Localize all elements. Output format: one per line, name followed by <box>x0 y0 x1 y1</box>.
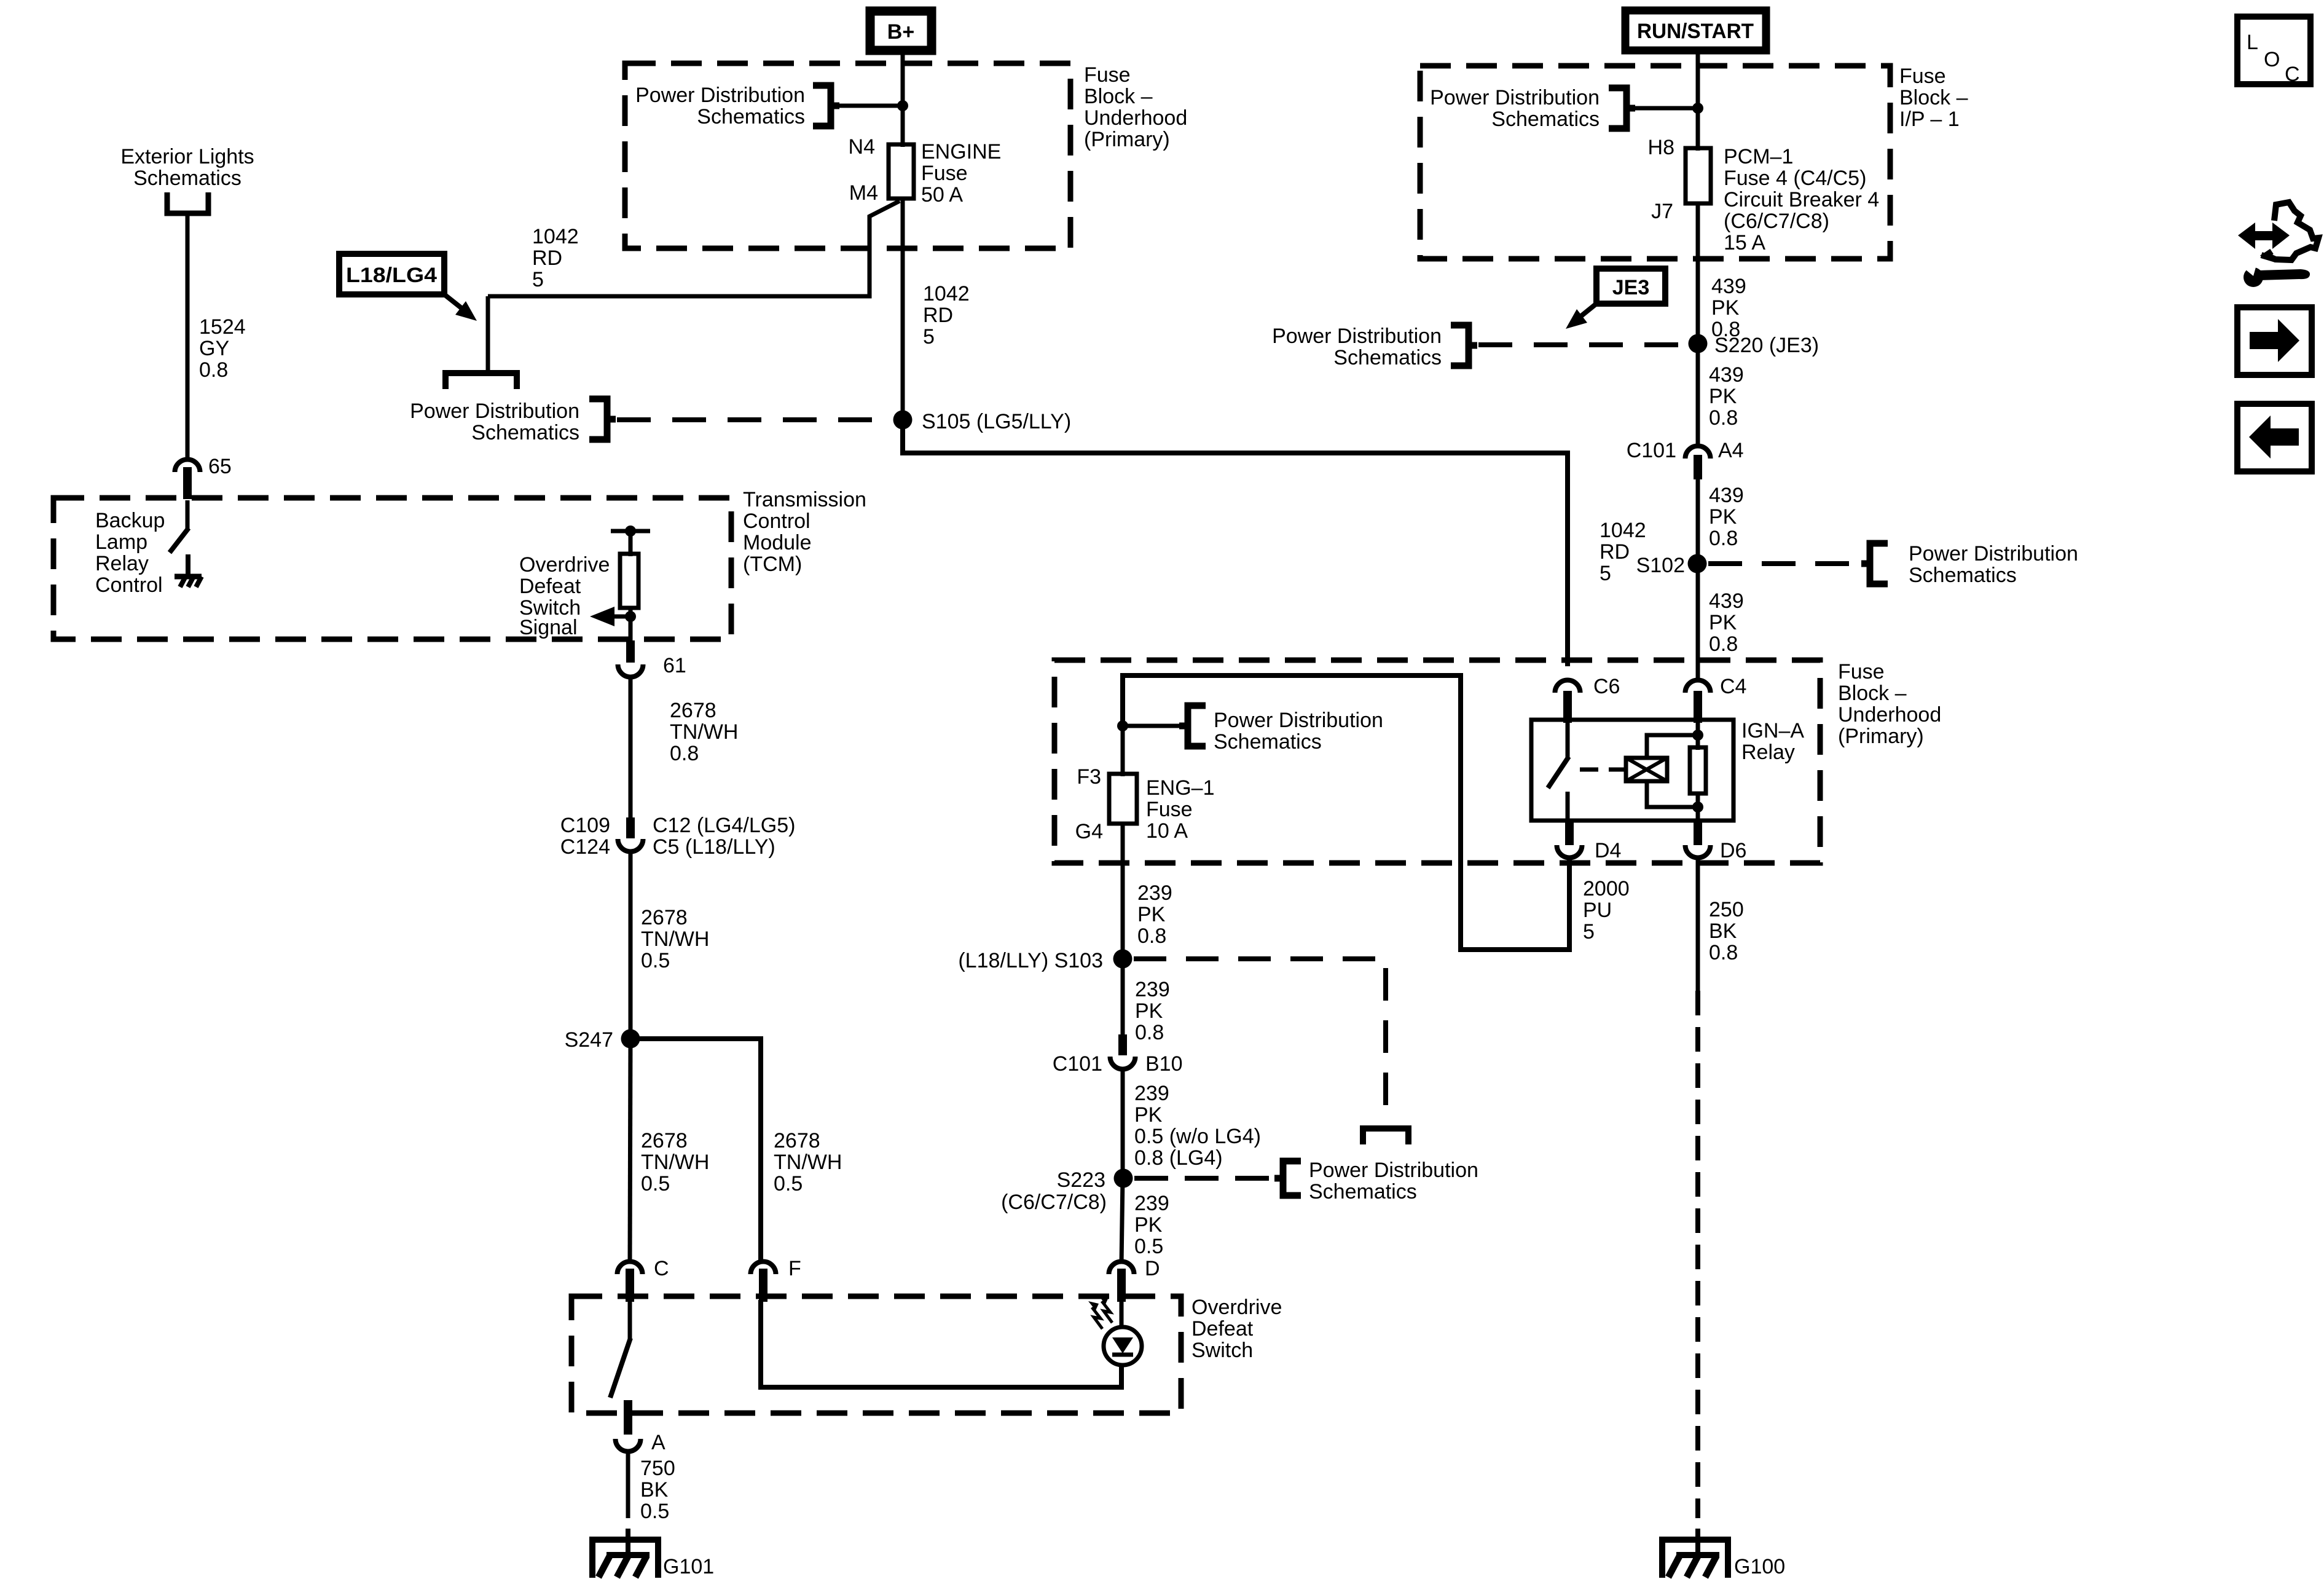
svg-text:Backup: Backup <box>95 509 165 532</box>
connector C101 B10 cup <box>1110 1057 1136 1069</box>
TCM label Transmission Control Module (TCM) <box>743 488 866 576</box>
relay coil (box with X) <box>1626 758 1667 781</box>
svg-text:C12 (LG4/LG5): C12 (LG4/LG5) <box>653 814 795 837</box>
wire S220 to C101 A4 <box>1696 344 1700 446</box>
svg-text:15 A: 15 A <box>1724 231 1765 254</box>
splice S102 <box>1688 554 1707 573</box>
label Power Distribution Schematics (JE3/S220) <box>1272 325 1442 369</box>
wire D leg into LED <box>1120 1300 1124 1329</box>
svg-text:(Primary): (Primary) <box>1838 725 1924 748</box>
svg-text:S102: S102 <box>1636 554 1685 577</box>
wire junction to bracket (I/P) <box>1632 106 1698 111</box>
svg-text:5: 5 <box>923 325 935 348</box>
terminal C connector dome <box>618 1262 643 1302</box>
pin label C12 (LG4/LG5) C5 (L18/LLY) <box>653 814 795 859</box>
svg-text:S105 (LG5/LLY): S105 (LG5/LLY) <box>922 410 1071 433</box>
svg-text:1042: 1042 <box>1600 519 1646 542</box>
svg-text:D: D <box>1145 1257 1160 1280</box>
fuse ENGINE 50 A <box>889 144 914 199</box>
legend forward arrow box <box>2237 307 2312 375</box>
svg-text:C6: C6 <box>1593 675 1620 698</box>
terminal 61 connector cup <box>618 664 643 677</box>
svg-text:C101: C101 <box>1627 439 1676 462</box>
wire S102 to C4 <box>1696 564 1700 680</box>
svg-text:A: A <box>651 1431 665 1454</box>
svg-text:TN/WH: TN/WH <box>641 1151 709 1174</box>
svg-text:Underhood: Underhood <box>1084 106 1187 130</box>
svg-text:Block –: Block – <box>1838 682 1907 705</box>
svg-text:PK: PK <box>1134 1103 1163 1127</box>
ground G100 stub <box>1695 1529 1700 1555</box>
junction dot in fuse block top <box>897 100 908 111</box>
svg-text:PU: PU <box>1583 899 1612 922</box>
svg-text:RD: RD <box>532 246 562 270</box>
svg-text:2000: 2000 <box>1583 877 1630 900</box>
svg-text:0.5: 0.5 <box>641 1172 670 1195</box>
Fuse Block Underhood (Primary) dashed box (middle) <box>1054 660 1820 863</box>
svg-text:C109: C109 <box>560 814 610 837</box>
svg-text:0.8: 0.8 <box>1709 941 1738 964</box>
wire D6 down (250 BK solid part) <box>1696 860 1700 991</box>
wire label 439 PK 0.8 (above A4) <box>1709 363 1744 430</box>
svg-text:Fuse: Fuse <box>1899 65 1946 88</box>
svg-text:0.8: 0.8 <box>1709 406 1738 430</box>
wire label 239 PK 0.8 (below G4) <box>1137 881 1172 948</box>
connector C109/C124 cup <box>618 839 643 852</box>
switch lower contact stub <box>626 1401 631 1420</box>
ground symbol G100 <box>1662 1540 1728 1578</box>
svg-text:B+: B+ <box>887 20 914 44</box>
svg-text:50 A: 50 A <box>921 183 963 207</box>
wire label 239 PK 0.5 (w/o LG4) 0.8 (LG4) <box>1134 1082 1261 1170</box>
label Fuse Block Underhood (Primary) middle <box>1838 660 1941 748</box>
wire F leg inside switch box <box>761 1300 1121 1387</box>
terminal C4 connector dome <box>1686 680 1711 723</box>
svg-text:C: C <box>654 1257 669 1280</box>
label Backup Lamp Relay Control <box>95 509 165 597</box>
svg-text:TN/WH: TN/WH <box>670 720 738 744</box>
wire resistor to junction <box>629 608 633 640</box>
TCM dashed box (contains Backup Lamp Relay Control and Overdrive Defeat Switch Signal) <box>53 498 731 639</box>
wire junction to fuse F3 <box>1121 726 1125 776</box>
svg-text:S247: S247 <box>565 1028 613 1052</box>
svg-text:D6: D6 <box>1720 839 1746 862</box>
svg-text:439: 439 <box>1709 589 1744 613</box>
svg-text:G101: G101 <box>663 1555 714 1578</box>
label Power Distribution Schematics (below L18/LG4 bracket) <box>410 400 579 444</box>
label Power Distribution Schematics (S102) <box>1909 542 2078 587</box>
relay junction dot upper <box>1692 730 1703 741</box>
wire 750 BK 0.5 <box>626 1452 630 1518</box>
Overdrive Defeat Switch dashed box <box>571 1296 1181 1413</box>
terminal D connector dome <box>1109 1262 1134 1302</box>
terminal 65 connector dome <box>175 460 200 500</box>
legend back arrow box <box>2237 404 2312 471</box>
svg-text:Switch: Switch <box>1191 1339 1253 1362</box>
svg-text:0.5: 0.5 <box>641 949 670 972</box>
svg-text:1042: 1042 <box>923 282 970 305</box>
hotlink icon (vehicle outline with double arrow and wrench) <box>2238 202 2318 287</box>
wire label 750 BK 0.5 <box>640 1457 675 1523</box>
relay label IGN-A Relay <box>1741 719 1804 764</box>
wire label 2678 TN/WH 0.5 (left) <box>641 1129 709 1195</box>
svg-text:Schematics: Schematics <box>697 105 805 128</box>
svg-text:5: 5 <box>1583 920 1595 943</box>
wire ENG-1 feed loop from D4 <box>1123 675 1569 950</box>
svg-text:A4: A4 <box>1718 439 1744 462</box>
dashed reference wire to S220 <box>1478 342 1689 347</box>
svg-text:Relay: Relay <box>1741 741 1795 764</box>
overdrive defeat switch blade <box>610 1338 630 1398</box>
svg-text:0.8: 0.8 <box>1135 1021 1164 1044</box>
splice S103 <box>1113 950 1133 969</box>
svg-text:Schematics: Schematics <box>1333 346 1442 369</box>
wire label 2678 TN/WH 0.5 (upper) <box>641 906 709 972</box>
svg-text:0.8: 0.8 <box>1137 924 1166 948</box>
svg-text:C124: C124 <box>560 835 610 859</box>
svg-text:H8: H8 <box>1648 136 1674 159</box>
wire S105 to relay C6 <box>903 420 1568 666</box>
wire corner down to off-page bracket <box>486 296 490 371</box>
svg-text:5: 5 <box>1600 562 1611 585</box>
power symbol B+ <box>870 11 932 50</box>
svg-text:PK: PK <box>1137 903 1166 926</box>
svg-text:C: C <box>2285 63 2300 86</box>
wire 1524 GY from Exterior Lights to terminal 65 <box>186 213 190 459</box>
svg-text:RD: RD <box>923 304 953 327</box>
wire label 439 PK 0.8 (above C4) <box>1709 589 1744 656</box>
svg-text:Circuit Breaker 4: Circuit Breaker 4 <box>1724 188 1879 211</box>
svg-text:Fuse: Fuse <box>1838 660 1885 683</box>
ground symbol G101 <box>592 1540 658 1578</box>
svg-text:439: 439 <box>1709 363 1744 387</box>
svg-text:Block –: Block – <box>1899 86 1968 109</box>
LOC legend box <box>2237 17 2310 86</box>
wire from top bar to resistor <box>629 531 633 556</box>
dashed reference wire from S102 <box>1708 561 1868 566</box>
wire junction to bracket (ENG-1) <box>1123 724 1184 728</box>
fuse label ENG-1 Fuse 10 A <box>1146 776 1215 843</box>
svg-text:750: 750 <box>640 1457 675 1480</box>
svg-text:Control: Control <box>95 573 163 597</box>
svg-text:O: O <box>2264 48 2280 71</box>
svg-text:439: 439 <box>1711 275 1746 298</box>
dashed reference wire to S105 <box>617 417 891 422</box>
dashed wire down to G100 <box>1695 991 1700 1518</box>
svg-text:Power Distribution: Power Distribution <box>1909 542 2078 565</box>
connector label C109 C124 <box>560 814 610 859</box>
svg-text:Module: Module <box>743 531 812 554</box>
bracket for Power Distribution Schematics (S220) <box>1451 325 1477 366</box>
svg-text:PK: PK <box>1135 999 1163 1023</box>
svg-text:B10: B10 <box>1145 1052 1183 1076</box>
resistor (overdrive defeat switch signal pull-up) <box>620 554 638 608</box>
svg-text:2678: 2678 <box>670 699 716 722</box>
label Power Distribution Schematics (ENG-1) <box>1214 709 1383 754</box>
fuse ENG-1 10 A <box>1109 774 1137 824</box>
fuse PCM-1 <box>1686 148 1711 203</box>
backup lamp relay switch blade <box>170 528 189 553</box>
svg-text:0.8: 0.8 <box>1709 632 1738 656</box>
relay switch wire from C6 <box>1566 723 1570 758</box>
svg-text:RUN/START: RUN/START <box>1637 20 1754 43</box>
svg-text:Schematics: Schematics <box>1214 730 1322 754</box>
svg-text:2678: 2678 <box>641 906 688 929</box>
svg-text:Schematics: Schematics <box>1309 1180 1417 1203</box>
svg-text:Overdrive: Overdrive <box>1191 1296 1282 1319</box>
svg-text:2678: 2678 <box>774 1129 820 1152</box>
svg-text:(C6/C7/C8): (C6/C7/C8) <box>1724 210 1829 233</box>
wire S103 to B10 <box>1121 959 1125 1037</box>
svg-text:10 A: 10 A <box>1146 819 1188 843</box>
junction dot and left arrow (overdrive defeat switch signal) <box>590 607 636 626</box>
relay coil lower lead <box>1647 781 1698 807</box>
svg-text:Fuse 4 (C4/C5): Fuse 4 (C4/C5) <box>1724 167 1866 190</box>
svg-text:Power Distribution: Power Distribution <box>1309 1159 1478 1182</box>
wire G4 to S103 <box>1121 824 1125 959</box>
svg-text:Power Distribution: Power Distribution <box>1430 86 1600 109</box>
svg-text:D4: D4 <box>1595 839 1621 862</box>
wire label 1042 RD 5 (main rail) <box>923 282 970 348</box>
bracket for Power Distribution Schematics (top fuse block) <box>813 85 839 126</box>
svg-text:Schematics: Schematics <box>1491 108 1600 131</box>
splice S223 <box>1114 1169 1133 1188</box>
label Overdrive Defeat Switch <box>1191 1296 1282 1362</box>
splice S220 <box>1689 334 1708 353</box>
svg-text:(TCM): (TCM) <box>743 553 802 576</box>
svg-text:239: 239 <box>1135 978 1170 1001</box>
relay coil upper lead <box>1647 735 1698 758</box>
label Overdrive Defeat Switch Signal <box>519 553 610 639</box>
svg-text:Signal: Signal <box>519 616 578 639</box>
wire 2678 TN/WH 0.8 <box>629 677 633 820</box>
svg-text:Fuse: Fuse <box>1146 798 1193 821</box>
svg-text:Lamp: Lamp <box>95 530 147 554</box>
svg-text:Schematics: Schematics <box>1909 564 2017 587</box>
junction dot in I/P fuse block <box>1692 103 1703 114</box>
svg-text:Fuse: Fuse <box>1084 63 1131 87</box>
LED indicator (overdrive defeat switch) <box>1104 1327 1142 1365</box>
wire label 439 PK 0.8 (above S102) <box>1709 484 1744 550</box>
svg-text:61: 61 <box>663 654 686 677</box>
wire fuse M4 down to S105 <box>901 199 905 420</box>
svg-text:PK: PK <box>1709 611 1737 634</box>
svg-text:65: 65 <box>208 455 232 478</box>
wire label 2678 TN/WH 0.8 <box>670 699 738 765</box>
svg-text:Control: Control <box>743 510 811 533</box>
node Exterior Lights Schematics label <box>120 145 254 190</box>
harness callout box JE3 <box>1596 269 1665 304</box>
label Fuse Block Underhood (Primary) top <box>1084 63 1187 151</box>
relay IGN-A box <box>1531 720 1733 821</box>
svg-text:G100: G100 <box>1734 1555 1785 1578</box>
off-page bracket (S103 reference) <box>1363 1128 1408 1144</box>
svg-text:F: F <box>788 1257 801 1280</box>
wire D4 down to ENG-1 loop <box>1567 860 1572 952</box>
wire label 1042 RD 5 (to C6) <box>1600 519 1646 585</box>
terminal A connector cup <box>616 1439 641 1451</box>
wire label 239 PK 0.8 (above B10) <box>1135 978 1170 1044</box>
svg-text:L: L <box>2247 31 2258 54</box>
svg-text:Underhood: Underhood <box>1838 703 1941 726</box>
svg-text:ENG–1: ENG–1 <box>1146 776 1215 800</box>
svg-text:Transmission: Transmission <box>743 488 866 511</box>
terminal D6 exit stub <box>1694 821 1702 845</box>
svg-text:(C6/C7/C8): (C6/C7/C8) <box>1001 1191 1107 1214</box>
svg-text:439: 439 <box>1709 484 1744 507</box>
svg-text:Fuse: Fuse <box>921 162 968 185</box>
svg-text:C5 (L18/LLY): C5 (L18/LLY) <box>653 835 775 859</box>
wire RUN/START to fuse H8 <box>1696 50 1700 151</box>
svg-text:(L18/LLY) S103: (L18/LLY) S103 <box>958 949 1103 972</box>
wire into backup lamp switch <box>186 500 190 529</box>
Fuse Block I/P - 1 dashed box <box>1420 66 1890 259</box>
label Power Distribution Schematics (S223/S103) <box>1309 1159 1478 1203</box>
label Fuse Block I/P - 1 <box>1899 65 1968 131</box>
wire S223 to D <box>1121 1178 1123 1264</box>
svg-text:2678: 2678 <box>641 1129 688 1152</box>
svg-text:TN/WH: TN/WH <box>774 1151 842 1174</box>
svg-text:5: 5 <box>532 268 544 291</box>
wire B+ to fuse N4 <box>901 50 905 147</box>
arrow from L18/LG4 box <box>444 294 477 321</box>
wire label 439 PK 0.8 (above S220) <box>1711 275 1746 341</box>
svg-text:Overdrive: Overdrive <box>519 553 610 577</box>
svg-text:0.5: 0.5 <box>774 1172 803 1195</box>
bracket for Power Distribution Schematics (I/P) <box>1609 88 1635 128</box>
svg-text:J7: J7 <box>1651 200 1673 223</box>
relay switch blade <box>1548 757 1569 788</box>
connector C109/C124 stub <box>626 817 635 838</box>
LED arrows <box>1088 1295 1112 1329</box>
svg-text:S220 (JE3): S220 (JE3) <box>1714 334 1819 357</box>
wire LED to F leg <box>1119 1365 1124 1390</box>
relay resistor to D6 wire <box>1696 793 1700 821</box>
terminal D6 connector cup <box>1686 845 1711 857</box>
wire S247 branch to F <box>630 1039 761 1262</box>
arrow from JE3 box <box>1566 304 1596 329</box>
bracket for Power Distribution Schematics (S223/S103) <box>1274 1161 1301 1195</box>
splice label S223 (C6/C7/C8) <box>1001 1168 1107 1214</box>
wire label 1042 RD 5 (left branch) <box>532 225 579 291</box>
terminal D4 connector cup <box>1557 845 1582 857</box>
junction dot above F3 <box>1117 720 1128 731</box>
svg-text:1042: 1042 <box>532 225 579 248</box>
splice S247 <box>621 1030 640 1049</box>
svg-text:PK: PK <box>1134 1213 1163 1237</box>
svg-text:239: 239 <box>1134 1082 1169 1105</box>
svg-text:Schematics: Schematics <box>133 167 241 190</box>
svg-text:239: 239 <box>1137 881 1172 905</box>
wire label 2000 PU 5 <box>1583 877 1630 943</box>
svg-text:0.5: 0.5 <box>1134 1235 1163 1258</box>
svg-text:Power Distribution: Power Distribution <box>1214 709 1383 732</box>
svg-text:TN/WH: TN/WH <box>641 927 709 951</box>
svg-text:L18/LG4: L18/LG4 <box>346 264 437 287</box>
connector C101 B10 stub <box>1118 1034 1127 1055</box>
wire junction to bracket <box>836 104 903 108</box>
label Power Distribution Schematics (top fuse block) <box>635 84 805 128</box>
splice S105 <box>893 411 913 430</box>
chassis ground hatch (backup lamp relay) <box>175 577 202 587</box>
svg-text:GY: GY <box>199 337 229 360</box>
terminal D4 exit stub <box>1565 821 1574 845</box>
svg-text:0.8: 0.8 <box>1709 527 1738 550</box>
svg-text:Relay: Relay <box>95 552 149 575</box>
relay resistor <box>1690 747 1706 793</box>
svg-text:Power Distribution: Power Distribution <box>635 84 805 107</box>
svg-text:IGN–A: IGN–A <box>1741 719 1804 742</box>
svg-text:Exterior Lights: Exterior Lights <box>120 145 254 168</box>
terminal 61 exit stub <box>626 640 635 663</box>
svg-text:(Primary): (Primary) <box>1084 128 1170 151</box>
wire into switch from C <box>628 1300 632 1339</box>
svg-text:ENGINE: ENGINE <box>921 140 1001 163</box>
svg-text:BK: BK <box>1709 919 1737 943</box>
svg-text:PCM–1: PCM–1 <box>1724 145 1793 168</box>
terminal A exit stub <box>624 1400 632 1435</box>
ignition symbol RUN/START <box>1625 10 1766 50</box>
bracket for Power Distribution Schematics (ENG-1) <box>1179 706 1206 746</box>
svg-text:Power Distribution: Power Distribution <box>410 400 579 423</box>
wire label 1524 GY 0.8 <box>199 315 246 382</box>
wire label 239 PK 0.5 (above D) <box>1134 1192 1169 1258</box>
svg-text:Schematics: Schematics <box>471 421 579 444</box>
label Power Distribution Schematics (I/P) <box>1430 86 1600 131</box>
svg-text:250: 250 <box>1709 898 1744 921</box>
relay junction dot lower <box>1692 801 1703 813</box>
relay actuator dashed link <box>1580 768 1624 772</box>
svg-text:Power Distribution: Power Distribution <box>1272 325 1442 348</box>
svg-text:PK: PK <box>1711 296 1740 320</box>
svg-text:0.8: 0.8 <box>199 358 228 382</box>
wire A4 to S102 <box>1696 478 1700 564</box>
svg-text:0.5 (w/o LG4): 0.5 (w/o LG4) <box>1134 1125 1261 1148</box>
svg-text:PK: PK <box>1709 385 1737 408</box>
svg-text:G4: G4 <box>1075 820 1103 843</box>
fuse label ENGINE Fuse 50 A <box>921 140 1001 207</box>
svg-text:239: 239 <box>1134 1192 1169 1215</box>
bracket for Power Distribution Schematics (S102) <box>1861 543 1888 584</box>
dashed reference wire from S103 <box>1134 959 1386 1124</box>
TCM internal top bar <box>611 526 650 537</box>
svg-text:M4: M4 <box>849 181 878 205</box>
svg-text:JE3: JE3 <box>1612 276 1650 299</box>
wire S247 down to C <box>630 1039 630 1262</box>
svg-text:RD: RD <box>1600 540 1630 564</box>
terminal F connector dome <box>751 1262 776 1302</box>
off-page connector bracket (Exterior Lights) <box>167 192 208 213</box>
svg-text:S223: S223 <box>1057 1168 1105 1192</box>
wire M4 diagonal branch to L18/LG4 run <box>488 201 900 296</box>
svg-text:Defeat: Defeat <box>519 575 581 598</box>
svg-text:Block –: Block – <box>1084 85 1153 108</box>
wire J7 to S220 <box>1696 203 1700 344</box>
svg-text:I/P – 1: I/P – 1 <box>1899 108 1960 131</box>
svg-text:PK: PK <box>1709 505 1737 529</box>
Fuse Block Underhood (Primary) dashed box (top) <box>625 63 1070 248</box>
svg-text:C101: C101 <box>1053 1052 1102 1076</box>
terminal C6 connector dome <box>1555 680 1580 723</box>
svg-text:1524: 1524 <box>199 315 246 339</box>
engine callout box L18/LG4 <box>339 254 444 294</box>
svg-text:0.8: 0.8 <box>670 742 699 765</box>
relay C4 wire to resistor <box>1696 723 1700 750</box>
wire label 2678 TN/WH 0.5 (right) <box>774 1129 842 1195</box>
bracket for S105 dashed reference <box>589 399 616 439</box>
wire 2678 TN/WH 0.5 (upper) <box>629 852 633 1039</box>
svg-text:Defeat: Defeat <box>1191 1317 1254 1341</box>
